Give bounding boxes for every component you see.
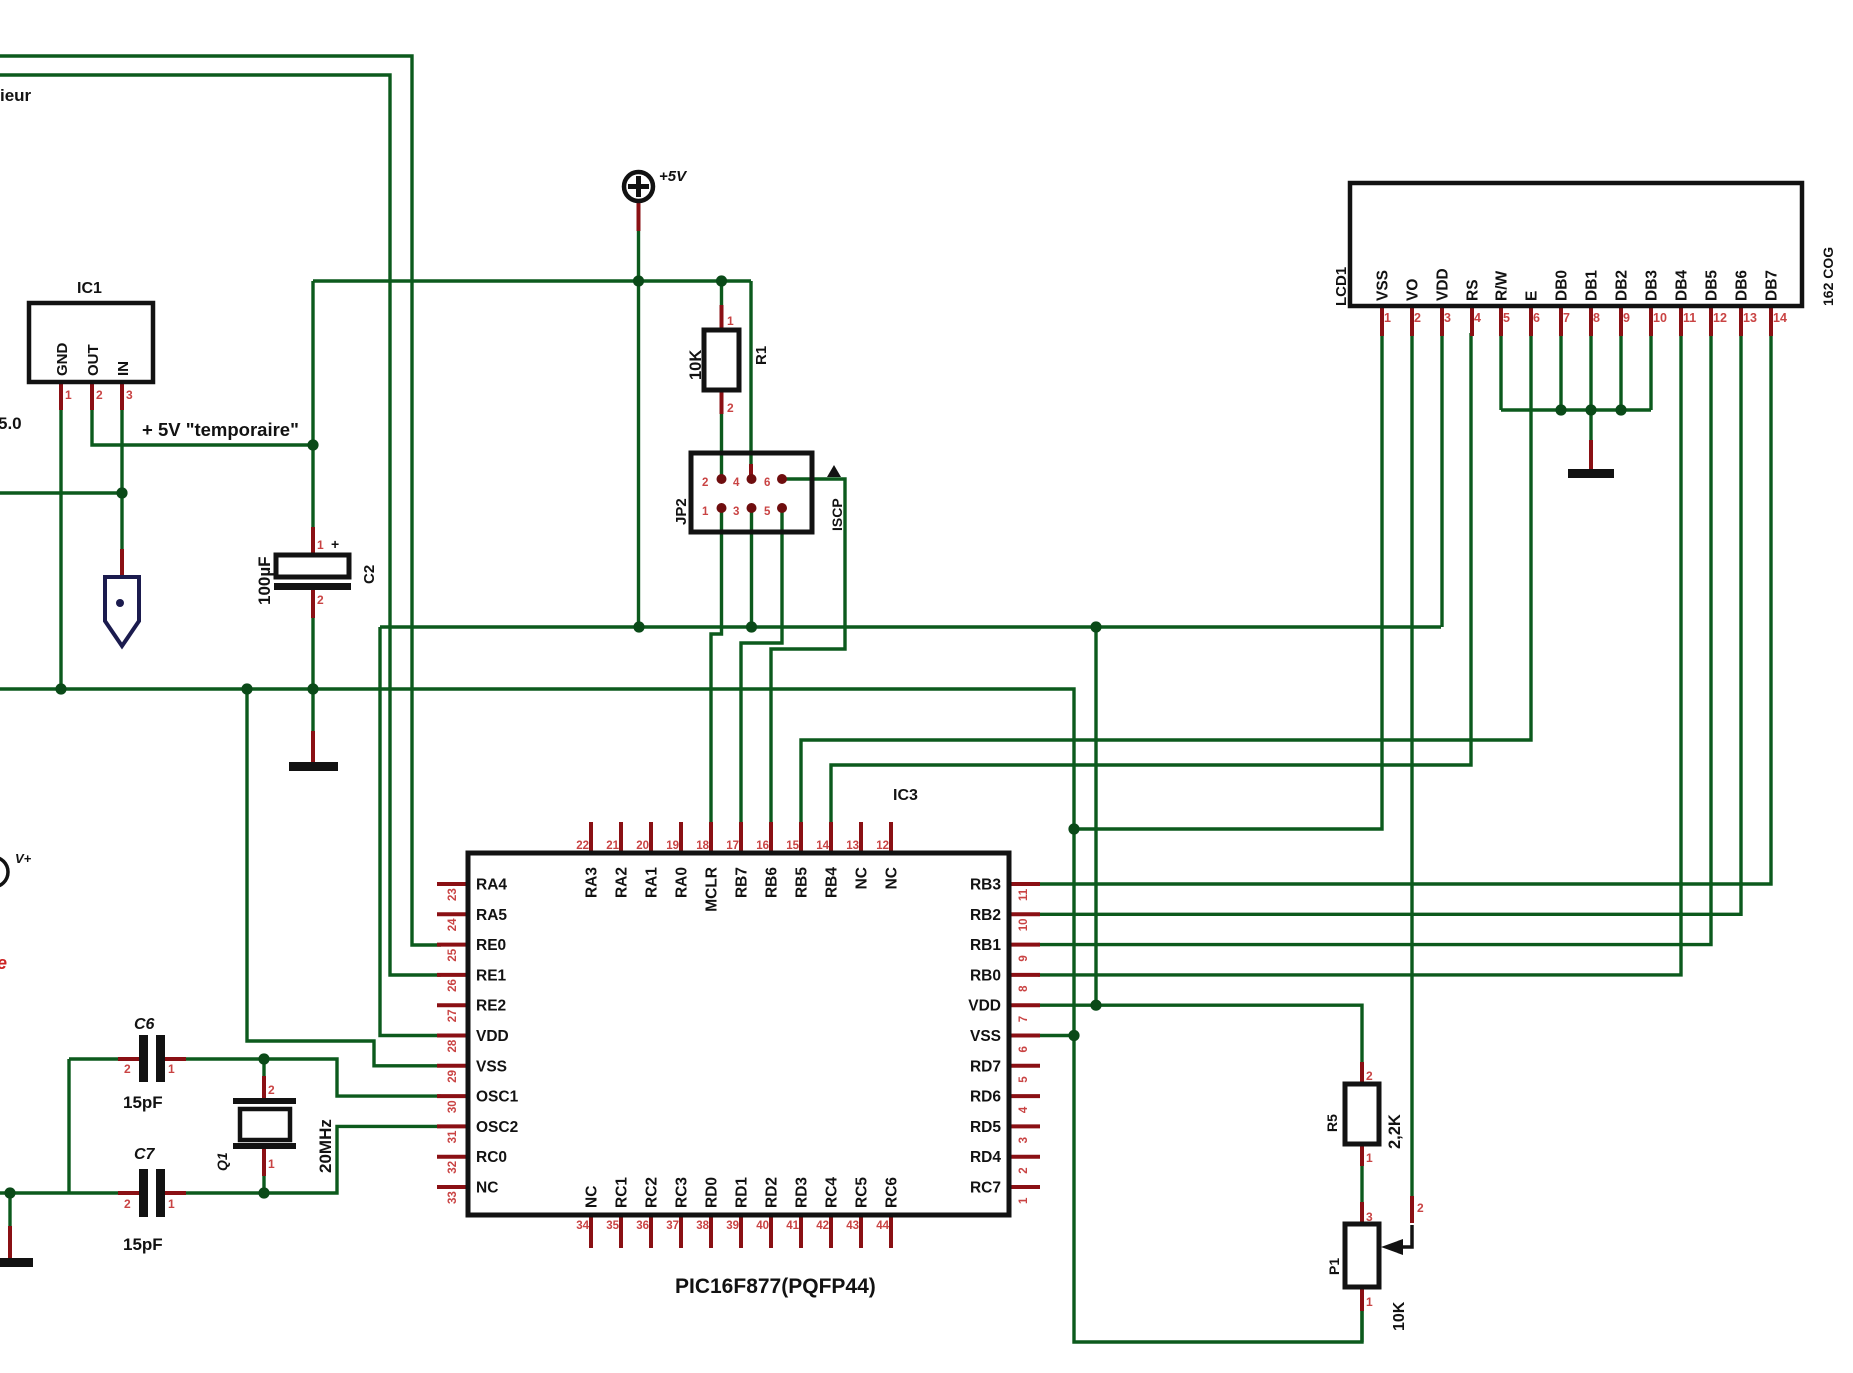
junction temporaire to C2 branch [307, 439, 318, 450]
svg-text:1: 1 [1366, 1295, 1373, 1309]
wire RB5 to LCD E [801, 333, 1531, 827]
svg-text:DB2: DB2 [1614, 270, 1631, 301]
svg-text:7: 7 [1563, 311, 1570, 325]
svg-text:2: 2 [124, 1197, 131, 1211]
svg-text:1: 1 [1366, 1151, 1373, 1165]
svg-text:44: 44 [876, 1220, 889, 1232]
svg-text:1: 1 [268, 1157, 275, 1171]
svg-text:VO: VO [1405, 279, 1422, 301]
IC1 pin 2 stub [90, 382, 94, 410]
svg-text:5.0: 5.0 [0, 414, 22, 433]
svg-text:RC0: RC0 [476, 1149, 507, 1166]
+5V symbol stub [637, 202, 641, 231]
wire ground stub bottom left [8, 1193, 11, 1226]
svg-text:12: 12 [876, 840, 889, 852]
R1 pin 1 stub [720, 305, 724, 330]
wire R1 pin2 to JP2 pin2 [720, 412, 723, 479]
svg-text:11: 11 [1018, 888, 1030, 901]
svg-text:36: 36 [636, 1220, 649, 1232]
svg-text:5: 5 [1503, 311, 1510, 325]
svg-text:27: 27 [447, 1009, 459, 1022]
junction y627 rail to IC3 VDD [1090, 621, 1101, 632]
svg-text:5: 5 [764, 506, 771, 518]
svg-text:RA2: RA2 [614, 867, 631, 898]
junction IC3 VDD right on +5V drop [1090, 1000, 1101, 1011]
resistor R1 [704, 330, 739, 390]
wire RB3 to LCD DB7 [1038, 333, 1771, 884]
svg-text:12: 12 [1713, 311, 1727, 325]
svg-text:29: 29 [447, 1070, 459, 1083]
svg-text:4: 4 [733, 477, 740, 489]
svg-text:E: E [1524, 291, 1541, 301]
svg-text:5: 5 [1018, 1076, 1030, 1083]
IC3 right pin names [968, 877, 1001, 1197]
svg-text:3: 3 [126, 388, 133, 402]
svg-text:13: 13 [846, 840, 859, 852]
svg-text:OSC1: OSC1 [476, 1089, 519, 1106]
svg-text:RB2: RB2 [970, 907, 1001, 924]
svg-text:2: 2 [124, 1062, 131, 1076]
crystal pin 1 stub [262, 1148, 266, 1176]
svg-text:+: + [331, 536, 339, 552]
wire C7 net to OSC2 [0, 1126, 441, 1193]
svg-text:DB0: DB0 [1554, 270, 1571, 301]
wire C2 branch vertical [311, 281, 314, 731]
wire IC3 VDD right to R5 [1038, 1005, 1362, 1062]
junction crystal pin1 on C7 net [258, 1187, 269, 1198]
svg-text:RA1: RA1 [644, 867, 661, 898]
IC3 left pin stubs 23-33 [437, 884, 468, 1187]
wire RB1 to LCD DB5 [1038, 333, 1711, 945]
svg-text:DB1: DB1 [1584, 270, 1601, 301]
junction JP2 pin3 on y627 rail [746, 621, 757, 632]
svg-text:3: 3 [1018, 1137, 1030, 1143]
svg-text:RB6: RB6 [764, 867, 781, 898]
capacitor C7 [139, 1169, 148, 1217]
svg-text:2: 2 [702, 477, 708, 489]
junction IC1 GND on ground bus [55, 683, 66, 694]
svg-text:VSS: VSS [476, 1058, 507, 1075]
wire +5V rail y627 [380, 627, 1441, 1036]
C6 pin stubs [118, 1057, 186, 1061]
crystal pin 2 stub [262, 1076, 266, 1100]
svg-text:24: 24 [447, 918, 459, 931]
R1 pin 2 stub [720, 390, 724, 414]
svg-text:RB0: RB0 [970, 967, 1001, 984]
ground symbol bottom left [0, 1258, 33, 1267]
svg-text:RD1: RD1 [734, 1177, 751, 1208]
svg-text:26: 26 [447, 979, 459, 992]
wire IC1 OUT +5V temporaire [92, 408, 313, 445]
IC1 pin 1 stub [59, 382, 63, 410]
svg-text:NC: NC [854, 867, 871, 889]
wire LCD R/W down [1499, 335, 1502, 410]
svg-text:8: 8 [1593, 311, 1600, 325]
svg-text:1: 1 [1384, 311, 1391, 325]
svg-text:RB4: RB4 [824, 867, 841, 898]
svg-text:RD5: RD5 [970, 1119, 1001, 1136]
svg-text:28: 28 [447, 1039, 459, 1052]
junction R1 pin1 on y281 rail [716, 275, 727, 286]
wire crystal pin1 link [262, 1175, 265, 1193]
svg-text:VDD: VDD [968, 998, 1001, 1015]
junction LCD DB1 on LCD ground bus [1585, 404, 1596, 415]
svg-text:IC1: IC1 [77, 280, 102, 297]
svg-text:VDD: VDD [1435, 268, 1452, 301]
svg-text:VSS: VSS [970, 1028, 1001, 1045]
svg-text:15pF: 15pF [123, 1235, 163, 1254]
IC1 pin 3 stub [120, 382, 124, 410]
svg-text:11: 11 [1683, 311, 1696, 325]
crystal Q1 [233, 1098, 296, 1104]
wire JP2 pin1 to MCLR [711, 508, 722, 827]
svg-text:VDD: VDD [476, 1028, 509, 1045]
svg-text:19: 19 [666, 840, 679, 852]
IC3 bottom pin numbers [576, 1220, 889, 1232]
svg-text:23: 23 [447, 888, 459, 901]
wire crystal pin2 link [262, 1059, 265, 1076]
svg-text:R/W: R/W [1494, 271, 1511, 302]
svg-text:LCD1: LCD1 [1333, 267, 1350, 306]
connector pin 6 arrow symbol [105, 577, 139, 646]
svg-text:10K: 10K [687, 350, 705, 380]
capacitor C6 [139, 1035, 148, 1082]
svg-text:21: 21 [606, 840, 619, 852]
svg-text:RC2: RC2 [644, 1177, 661, 1208]
svg-text:RC6: RC6 [884, 1177, 901, 1208]
wire JP2 pin6 to RB6 [771, 479, 845, 827]
svg-text:RS: RS [1465, 279, 1482, 301]
svg-text:NC: NC [584, 1186, 601, 1208]
IC3 left pin names [476, 877, 519, 1197]
bottom left ground red stub [8, 1226, 12, 1259]
wire LCD VO to P1 wiper [1410, 335, 1413, 1196]
junction +5V drop on y627 rail [633, 621, 644, 632]
svg-text:RD2: RD2 [764, 1177, 781, 1208]
svg-text:15: 15 [786, 840, 799, 852]
P1 pin 2 wiper stub [1410, 1196, 1414, 1223]
svg-text:IC3: IC3 [893, 787, 918, 804]
svg-text:DB3: DB3 [1644, 270, 1661, 301]
wire RB2 to LCD DB6 [1038, 333, 1741, 914]
JP2 pin 4 stub [749, 464, 753, 479]
svg-text:32: 32 [447, 1161, 459, 1174]
C2 pin 1 stub [311, 527, 315, 556]
svg-text:C7: C7 [134, 1146, 156, 1163]
svg-text:RD7: RD7 [970, 1058, 1001, 1075]
junction LCD DB0 on LCD ground bus [1555, 404, 1566, 415]
svg-text:17: 17 [726, 840, 739, 852]
junction IC1 IN node [116, 487, 127, 498]
svg-text:37: 37 [666, 1220, 679, 1232]
ISCP label arrow [827, 465, 841, 477]
connector 6 pin stub [120, 549, 124, 578]
svg-text:RD6: RD6 [970, 1089, 1001, 1106]
microcontroller IC3 PIC16F877 [468, 853, 1009, 1215]
svg-text:PIC16F877(PQFP44): PIC16F877(PQFP44) [675, 1275, 876, 1298]
wire IC1 GND down to ground bus [59, 408, 62, 689]
C2 ground stub [311, 731, 315, 763]
svg-text:C6: C6 [134, 1016, 155, 1033]
svg-text:RC5: RC5 [854, 1177, 871, 1208]
svg-text:+ 5V "temporaire": + 5V "temporaire" [142, 419, 299, 440]
svg-text:13: 13 [1743, 311, 1757, 325]
wire P1 pin1 to ground [1360, 1310, 1363, 1342]
svg-text:2: 2 [1414, 311, 1421, 325]
wire R5 to P1 [1360, 1165, 1363, 1203]
wire LCD DB2 down [1619, 335, 1622, 410]
wire ground to IC3 VSS left [247, 689, 441, 1066]
IC3 bottom pin stubs 34-44 [591, 1215, 891, 1248]
svg-text:3: 3 [733, 506, 739, 518]
voltage regulator IC1 [29, 303, 153, 382]
svg-text:20MHz: 20MHz [316, 1119, 335, 1173]
svg-text:RC3: RC3 [674, 1177, 691, 1208]
LCD1 pin stubs 1-14 [1382, 306, 1771, 336]
svg-text:18: 18 [696, 840, 709, 852]
wire RB0 to LCD DB4 [1038, 333, 1681, 975]
svg-text:OSC2: OSC2 [476, 1119, 518, 1136]
wire R1 pin1 to rail [720, 281, 723, 312]
svg-text:IN: IN [115, 361, 132, 376]
svg-text:NC: NC [476, 1180, 498, 1197]
svg-text:25: 25 [447, 948, 459, 961]
svg-text:1: 1 [168, 1062, 175, 1076]
ground symbol below LCD [1568, 469, 1614, 478]
svg-text:41: 41 [786, 1220, 799, 1232]
svg-text:C2: C2 [361, 565, 378, 584]
IC3 bottom pin names [584, 1177, 901, 1208]
svg-text:2: 2 [1366, 1069, 1373, 1083]
wire ground bus [0, 689, 1362, 1342]
svg-text:40: 40 [756, 1220, 769, 1232]
wire +5V rail y281 [313, 281, 751, 466]
svg-text:RC4: RC4 [824, 1177, 841, 1208]
svg-text:15pF: 15pF [123, 1093, 163, 1112]
wire +5V symbol drop [637, 230, 640, 627]
svg-text:ISCP: ISCP [829, 498, 845, 531]
IC3 left pin numbers [447, 888, 459, 1204]
junction ground symbol bottom left [4, 1187, 15, 1198]
svg-text:100µF: 100µF [255, 556, 274, 605]
potentiometer P1 [1345, 1224, 1379, 1287]
wire RB4 to LCD RS [831, 333, 1471, 827]
svg-text:39: 39 [726, 1220, 739, 1232]
svg-text:1: 1 [317, 538, 324, 552]
wire LCD DB3 down [1649, 335, 1652, 410]
svg-text:R5: R5 [1324, 1114, 1340, 1132]
svg-text:GND: GND [54, 343, 71, 377]
resistor R5 [1345, 1084, 1379, 1144]
svg-text:OUT: OUT [85, 344, 102, 376]
svg-text:10K: 10K [1391, 1301, 1408, 1331]
svg-text:RD3: RD3 [794, 1177, 811, 1208]
wire IC3 VSS right to ground [1038, 1034, 1074, 1037]
svg-text:14: 14 [816, 840, 829, 852]
LCD connector LCD1 [1350, 183, 1802, 306]
svg-text:10: 10 [1653, 311, 1667, 325]
svg-text:DB4: DB4 [1674, 270, 1691, 301]
C7 pin stubs [118, 1191, 186, 1195]
svg-text:RD0: RD0 [704, 1177, 721, 1208]
svg-text:RC7: RC7 [970, 1180, 1001, 1197]
power symbol +5V [624, 172, 653, 201]
svg-text:33: 33 [447, 1191, 459, 1204]
svg-text:MCLR: MCLR [704, 867, 721, 912]
IC3 top pin names [584, 867, 901, 912]
junction LCD VSS on ground line [1068, 823, 1079, 834]
junction crystal pin2 on C6 net [258, 1053, 269, 1064]
svg-text:RA4: RA4 [476, 877, 507, 894]
capacitor C2 [276, 555, 349, 577]
wire IC1 IN down to connector [120, 408, 123, 549]
svg-text:6: 6 [1018, 1046, 1030, 1052]
svg-text:9: 9 [1018, 955, 1030, 961]
junction VSS branch on ground bus [241, 683, 252, 694]
svg-text:30: 30 [447, 1100, 459, 1113]
wire LCD VDD to +5V rail [1440, 335, 1443, 627]
P1 pin 3 stub [1360, 1202, 1364, 1225]
svg-text:2: 2 [96, 388, 103, 402]
svg-text:7: 7 [1018, 1016, 1030, 1022]
svg-text:31: 31 [447, 1130, 459, 1143]
svg-text:42: 42 [816, 1220, 829, 1232]
LCD1 pin names [1375, 268, 1781, 301]
wire +V outer top line to RE0 [0, 56, 441, 945]
wire from left edge to IC1 IN [0, 491, 122, 494]
svg-text:RA0: RA0 [674, 867, 691, 898]
svg-text:43: 43 [846, 1220, 859, 1232]
svg-text:9: 9 [1623, 311, 1630, 325]
wire C6 net to OSC1 [69, 1059, 441, 1096]
svg-text:DB6: DB6 [1734, 270, 1751, 301]
svg-text:RB3: RB3 [970, 877, 1001, 894]
svg-text:e: e [0, 953, 7, 973]
IC3 right pin stubs 11-1 [1009, 884, 1040, 1187]
wire inner top line to RE1 [0, 75, 441, 975]
connector JP2 [691, 453, 812, 532]
svg-text:ieur: ieur [0, 86, 32, 105]
svg-text:RA5: RA5 [476, 907, 507, 924]
svg-text:RB7: RB7 [734, 867, 751, 898]
R5 pin 2 stub [1360, 1062, 1364, 1084]
svg-text:2,2K: 2,2K [1386, 1114, 1404, 1149]
svg-text:R1: R1 [753, 346, 770, 365]
R5 pin 1 stub [1360, 1143, 1364, 1166]
svg-text:4: 4 [1474, 311, 1481, 325]
svg-text:RD4: RD4 [970, 1149, 1001, 1166]
svg-text:1: 1 [65, 388, 72, 402]
svg-text:2: 2 [1018, 1167, 1030, 1173]
svg-text:3: 3 [1444, 311, 1451, 325]
svg-text:22: 22 [576, 840, 589, 852]
power symbol V+ [0, 857, 8, 887]
svg-text:2: 2 [317, 593, 324, 607]
IC3 right pin numbers [1018, 888, 1030, 1204]
svg-text:RB1: RB1 [970, 937, 1001, 954]
junction C2 on ground bus [307, 683, 318, 694]
wire LCD VSS to ground [1074, 335, 1382, 829]
svg-text:20: 20 [636, 840, 649, 852]
IC3 top pin numbers [576, 840, 889, 852]
svg-text:2: 2 [727, 401, 734, 415]
svg-text:1: 1 [1018, 1197, 1030, 1204]
wire +5V rail down to IC3 VDD right [1094, 627, 1097, 1005]
svg-text:34: 34 [576, 1220, 589, 1232]
svg-text:10: 10 [1018, 919, 1030, 932]
svg-text:NC: NC [884, 867, 901, 889]
svg-text:1: 1 [168, 1197, 175, 1211]
svg-text:2: 2 [1417, 1201, 1424, 1215]
svg-text:1: 1 [727, 314, 734, 328]
svg-text:6: 6 [1533, 311, 1540, 325]
svg-text:RE0: RE0 [476, 937, 506, 954]
svg-text:Q1: Q1 [214, 1152, 230, 1171]
wire LCD DB0 down [1559, 335, 1562, 410]
LCD ground stub [1589, 440, 1593, 470]
svg-text:V+: V+ [15, 851, 32, 866]
svg-text:8: 8 [1018, 985, 1030, 992]
svg-text:+5V: +5V [659, 168, 688, 185]
P1 pin 1 stub [1360, 1286, 1364, 1311]
svg-text:RE1: RE1 [476, 967, 507, 984]
wire JP2 pin5 to RB7 [741, 508, 782, 827]
svg-text:4: 4 [1018, 1106, 1030, 1113]
svg-text:RA3: RA3 [584, 867, 601, 898]
svg-text:3: 3 [1366, 1210, 1373, 1224]
svg-text:2: 2 [268, 1083, 275, 1097]
junction IC3 VSS right on ground line [1068, 1030, 1079, 1041]
wire LCD DB1 down [1589, 335, 1592, 410]
svg-text:P1: P1 [1326, 1258, 1342, 1275]
wire C6 to C7 left link [67, 1059, 70, 1193]
svg-text:RB5: RB5 [794, 867, 811, 898]
svg-text:DB5: DB5 [1704, 270, 1721, 301]
C2 pin 2 stub [311, 589, 315, 618]
svg-text:JP2: JP2 [673, 498, 690, 525]
junction +5V symbol on y281 rail [633, 275, 644, 286]
ground symbol below C2 [289, 762, 338, 771]
svg-text:162 COG: 162 COG [1820, 247, 1836, 306]
svg-text:1: 1 [702, 506, 709, 518]
IC3 top pin stubs 22-12 [591, 822, 891, 853]
svg-text:RE2: RE2 [476, 998, 506, 1015]
svg-text:14: 14 [1773, 311, 1787, 325]
svg-text:38: 38 [696, 1220, 709, 1232]
svg-text:DB7: DB7 [1764, 270, 1781, 301]
wire JP2 pin3 to +5V rail [750, 508, 753, 627]
junction LCD DB2 on LCD ground bus [1615, 404, 1626, 415]
LCD1 pin numbers [1384, 311, 1787, 325]
svg-text:35: 35 [606, 1220, 619, 1232]
svg-text:RC1: RC1 [614, 1177, 631, 1208]
svg-text:VSS: VSS [1375, 270, 1392, 301]
svg-text:6: 6 [764, 477, 770, 489]
svg-text:16: 16 [756, 840, 769, 852]
wire LCD ground bus [1501, 410, 1651, 440]
